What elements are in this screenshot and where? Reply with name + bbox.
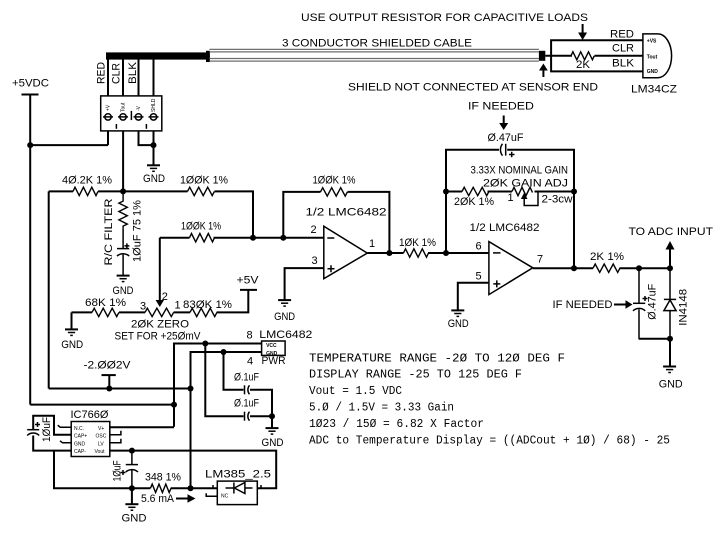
cable end cap at sensor end (539, 51, 545, 61)
diode IN4148 (664, 268, 676, 339)
node output adc (667, 265, 673, 271)
svg-text:2ØK GAIN ADJ: 2ØK GAIN ADJ (483, 178, 568, 190)
op-amp U1A plus (328, 265, 335, 272)
svg-text:5: 5 (476, 271, 482, 283)
terminal +5V (240, 289, 257, 291)
svg-text:CAP-: CAP- (74, 449, 86, 455)
svg-text:GND: GND (659, 379, 683, 391)
node first row joins inverting row (250, 235, 256, 241)
potentiometer 20K zero (145, 308, 174, 316)
wire -2.002V riser left (48, 191, 50, 388)
sensor LM34CZ body (643, 34, 672, 78)
resistor 348 1% (150, 484, 171, 492)
wire rail gnd drop (131, 488, 133, 504)
svg-text:Ø.1uF: Ø.1uF (234, 398, 259, 410)
label LM385 pin 1 tick (260, 485, 262, 488)
wire connector pin3 down to gnd (139, 131, 154, 145)
connector pin circles (103, 114, 159, 120)
svg-text:3.33X NOMINAL GAIN: 3.33X NOMINAL GAIN (471, 165, 569, 177)
svg-text:LV: LV (98, 441, 104, 447)
ground output (663, 367, 676, 373)
svg-text:7: 7 (537, 253, 543, 265)
capacitor 0.1uF first (245, 385, 250, 394)
wire 68K left to ground (71, 312, 73, 329)
IC7660 pin GND stub (60, 441, 71, 443)
wire connector pin1 up to cable (107, 56, 109, 96)
svg-text:2: 2 (311, 224, 317, 236)
wire IC7660 V+ (110, 426, 174, 428)
wire -2.002V rail (49, 388, 191, 390)
svg-text:Ø.47uF: Ø.47uF (488, 132, 524, 144)
LM385 box (217, 481, 257, 505)
svg-text:1ØuF 75 1%: 1ØuF 75 1% (132, 200, 144, 262)
row 68K / zero pot / 830K (72, 290, 249, 313)
svg-text:1ØuF: 1ØuF (112, 460, 124, 481)
plus mark 0.47uF output (643, 296, 648, 301)
svg-text:GND: GND (143, 173, 165, 185)
wire bottom rail with 348 (132, 487, 217, 489)
svg-text:3: 3 (140, 300, 146, 312)
svg-text:+VS: +VS (647, 38, 657, 44)
node op2 pin6 (443, 250, 449, 256)
svg-text:CAP+: CAP+ (74, 434, 87, 440)
node +5V feed (171, 402, 177, 408)
svg-text:RED: RED (96, 62, 108, 84)
plus mark 10uF reservoir (121, 470, 126, 475)
wire +5VDC rail (29, 95, 31, 405)
wire sensor GND (blk) (551, 56, 643, 72)
node connector gnd (151, 142, 157, 148)
svg-text:1: 1 (508, 192, 514, 204)
resistor 68K (92, 308, 119, 316)
capacitor 0.1uF second (245, 412, 250, 421)
svg-text:2ØK ZERO: 2ØK ZERO (131, 319, 189, 331)
wire op1 pin3 to ground (285, 268, 324, 300)
wire connector pin3 up to cable (138, 56, 140, 96)
svg-text:2K: 2K (576, 59, 591, 71)
cable thick jacket at connector end (106, 52, 206, 59)
svg-text:8: 8 (247, 330, 253, 342)
wire connector pin2 up to cable (122, 56, 124, 96)
svg-text:348 1%: 348 1% (145, 472, 181, 484)
wire inverting input row (160, 237, 324, 239)
op-amp U1B minus (493, 252, 501, 254)
svg-text:-2.ØØ2V: -2.ØØ2V (84, 360, 132, 372)
svg-text:BLK: BLK (612, 58, 635, 70)
svg-text:NC: NC (221, 494, 229, 500)
svg-text:1/2 LMC6482: 1/2 LMC6482 (306, 207, 387, 219)
svg-text:2K 1%: 2K 1% (590, 251, 624, 263)
svg-text:GND: GND (647, 69, 659, 75)
svg-text:IF NEEDED: IF NEEDED (468, 101, 534, 113)
capacitor 0.47uF output (633, 268, 645, 339)
node feedback joins inverting row (280, 235, 286, 241)
svg-text:LM34CZ: LM34CZ (631, 84, 677, 96)
arrow to output resistor (578, 24, 587, 40)
wire +5V feed row (30, 404, 174, 406)
svg-text:ADC to Temperature Display = (: ADC to Temperature Display = ((ADCout + … (309, 435, 670, 448)
svg-text:GND: GND (122, 513, 147, 525)
IC7660 pin LV stub (110, 439, 121, 443)
LM385 NC stub (206, 493, 217, 496)
wire sensor Vout segment (545, 55, 643, 57)
node bypass caps join (269, 413, 275, 419)
cable jacket end cap (206, 51, 210, 62)
svg-text:1ØØK 1%: 1ØØK 1% (180, 175, 228, 187)
arrow to shield at sensor end (539, 64, 548, 78)
svg-text:GND: GND (113, 285, 134, 297)
wire GND pin4 (191, 352, 262, 488)
svg-text:2ØK 1%: 2ØK 1% (454, 196, 494, 208)
wire bypass cap 2 (205, 344, 272, 417)
wire gain feedback top (446, 150, 574, 268)
ground connector shield (147, 165, 160, 171)
svg-text:1ØK 1%: 1ØK 1% (399, 237, 436, 249)
terminal +5VDC (22, 94, 39, 96)
wire zero pot wiper riser (159, 238, 161, 300)
wire cap- down to rail (54, 451, 132, 489)
plus mark 0.47uF feedback (509, 152, 515, 158)
wire input row (40.2K / 100K) (49, 191, 253, 237)
IC7660 box (71, 422, 110, 457)
arrow 5.6 mA (176, 494, 196, 502)
svg-text:CLR: CLR (612, 43, 634, 55)
wire +5V to connector pin 1 (30, 144, 108, 146)
node gain row right (571, 189, 577, 195)
node -2.002V rail end (188, 386, 194, 392)
svg-text:Vout: Vout (95, 449, 106, 455)
IC7660 pin OSC stub (110, 431, 121, 435)
resistor 830K (190, 308, 217, 316)
ground 68K (65, 329, 78, 335)
node gain row left (443, 189, 449, 195)
svg-text:LM385_2.5: LM385_2.5 (205, 469, 271, 481)
svg-text:+V: +V (106, 104, 112, 111)
op-amp U1B plus (493, 280, 500, 287)
capacitor 10uF pump (27, 430, 39, 436)
ground rail (125, 504, 138, 510)
svg-text:N.C.: N.C. (74, 426, 84, 432)
svg-text:PWR: PWR (262, 355, 286, 367)
svg-text:1ØuF: 1ØuF (41, 417, 53, 442)
svg-text:V+: V+ (98, 426, 104, 432)
svg-text:GND: GND (274, 311, 295, 323)
node Vout to 10uF2 (129, 448, 135, 454)
svg-text:1/2 LMC6482: 1/2 LMC6482 (470, 222, 540, 234)
IC7660 pin N.C. stub (58, 425, 71, 427)
svg-text:SHLD: SHLD (151, 98, 157, 112)
capacitor 10uF reservoir (126, 451, 138, 489)
svg-text:SET FOR +25ØmV: SET FOR +25ØmV (115, 331, 202, 343)
resistor 100K feedback (321, 188, 348, 196)
wire gain row (446, 191, 574, 193)
wire connector pin2 down to 40.2K node (122, 131, 124, 192)
resistor 100K first (188, 187, 215, 195)
connector divider tick (130, 111, 132, 120)
label LM385 pin 2 tick (212, 485, 214, 488)
svg-text:+5V: +5V (237, 275, 260, 287)
LM385 diode symbol (226, 483, 253, 494)
node rail LM385 (188, 485, 194, 491)
svg-text:1: 1 (175, 300, 181, 312)
wire feedback riser and top row (283, 192, 389, 253)
svg-text:CLR: CLR (111, 63, 123, 84)
node diode bottom (667, 336, 673, 342)
resistor 40.2K (73, 187, 98, 195)
wire connector pin4 down to gnd (153, 131, 155, 165)
wire op1 output to 10K to op2 pin6 (367, 252, 489, 254)
wire connector pin1 down (107, 131, 109, 145)
svg-text:Tout: Tout (121, 102, 127, 112)
svg-text:TO ADC INPUT: TO ADC INPUT (629, 226, 714, 238)
wire op2 pin5 to ground (458, 283, 489, 311)
svg-text:4Ø.2K 1%: 4Ø.2K 1% (62, 175, 112, 187)
svg-text:+5VDC: +5VDC (12, 78, 49, 90)
node pin2 wire meets input row (120, 188, 126, 194)
svg-text:GND: GND (74, 441, 86, 447)
node vcc bypass (202, 341, 208, 347)
power box LMC6482 (262, 341, 286, 355)
capacitor 10uF filter (117, 229, 129, 276)
resistor 2K (output resistor) (571, 52, 594, 60)
gain pot wiper arrow and hook (521, 193, 538, 206)
ground op1 pin3 (278, 300, 291, 306)
svg-text:5.6 mA: 5.6 mA (141, 493, 175, 505)
svg-text:5.Ø / 1.5V = 3.33 Gain: 5.Ø / 1.5V = 3.33 Gain (309, 402, 454, 415)
terminal -2.002V (102, 375, 116, 388)
svg-text:LMC6482: LMC6482 (259, 329, 312, 341)
svg-text:68K 1%: 68K 1% (85, 297, 126, 309)
svg-text:Ø.47uF: Ø.47uF (647, 284, 659, 320)
svg-text:83ØK 1%: 83ØK 1% (183, 299, 232, 311)
node rail gnd (129, 485, 135, 491)
op-amp U1B triangle (489, 242, 533, 295)
wire bypass to ground (271, 416, 273, 428)
svg-text:Tout: Tout (647, 54, 658, 60)
potentiometer 20K gain adj (512, 187, 533, 195)
svg-text:SHIELD NOT CONNECTED AT SENSOR: SHIELD NOT CONNECTED AT SENSOR END (348, 82, 598, 94)
connector tick a (115, 124, 117, 129)
svg-text:2-3cw: 2-3cw (542, 194, 573, 206)
svg-text:1Ø23 / 15Ø = 6.82 X Factor: 1Ø23 / 15Ø = 6.82 X Factor (309, 418, 484, 431)
wire sensor +VS (red) (551, 40, 643, 56)
wire bypass cap 1 (224, 352, 273, 416)
svg-text:IF NEEDED: IF NEEDED (553, 299, 613, 311)
svg-text:TEMPERATURE RANGE -2Ø TO 12Ø: TEMPERATURE RANGE -2Ø TO 12Ø DEG F (309, 353, 565, 366)
plus mark 10uF filter (124, 243, 129, 248)
node -2.002V tap (106, 386, 112, 392)
svg-text:GND: GND (61, 339, 83, 351)
svg-text:DISPLAY RANGE -25 TO 125 DEG F: DISPLAY RANGE -25 TO 125 DEG F (309, 369, 522, 382)
svg-text:IC766Ø: IC766Ø (71, 409, 109, 421)
wire IC7660 Vout row (110, 451, 276, 489)
connector tick b (145, 124, 147, 129)
svg-text:USE OUTPUT RESISTOR FOR CAPACI: USE OUTPUT RESISTOR FOR CAPACITIVE LOADS (301, 12, 588, 24)
svg-text:-V: -V (136, 105, 142, 111)
svg-text:BLK: BLK (127, 61, 139, 84)
op-amp U1A triangle (324, 226, 368, 279)
svg-text:GND: GND (262, 437, 284, 449)
node output cap (636, 265, 642, 271)
svg-text:4: 4 (247, 356, 253, 368)
svg-text:1: 1 (369, 238, 375, 250)
plus mark 10uF pump (35, 422, 40, 427)
node +5VDC to connector (27, 142, 33, 148)
connector block J1 (101, 96, 162, 131)
svg-text:OSC: OSC (96, 434, 107, 440)
arrow to ADC input (666, 241, 675, 268)
resistor 10K (404, 249, 429, 257)
svg-text:IN4148: IN4148 (678, 289, 690, 326)
svg-text:1ØØK 1%: 1ØØK 1% (313, 175, 356, 187)
ground op2 pin5 (451, 310, 464, 316)
ground bypass (266, 428, 279, 434)
svg-text:VCC: VCC (266, 343, 277, 349)
svg-text:R/C FILTER: R/C FILTER (103, 198, 115, 265)
resistor 20K 1% (462, 187, 489, 195)
wire output cap bottom (639, 339, 670, 367)
svg-text:RED: RED (610, 29, 634, 41)
wire pump cap loop (33, 416, 71, 451)
resistor 100K second (190, 234, 215, 242)
svg-text:6: 6 (476, 241, 482, 253)
svg-text:3 CONDUCTOR SHIELDED CABLE: 3 CONDUCTOR SHIELDED CABLE (282, 38, 472, 50)
node gnd bypass (221, 349, 227, 355)
arrow zero pot wiper (156, 300, 164, 307)
node output feedback (571, 265, 577, 271)
svg-text:Vout = 1.5 VDC: Vout = 1.5 VDC (309, 385, 402, 398)
op-amp U1A minus (327, 237, 334, 239)
svg-text:1ØØK 1%: 1ØØK 1% (181, 221, 221, 233)
wire connector pin4 up to cable (153, 56, 155, 96)
resistor 75 ohm (vertical) (119, 191, 127, 228)
ground R/C filter (117, 276, 130, 282)
resistor 2K 1% (593, 264, 620, 272)
wire VCC pin8 (174, 344, 262, 427)
svg-text:3: 3 (312, 255, 318, 267)
node feedback at output (386, 250, 392, 256)
shielded cable body (209, 49, 539, 61)
svg-text:Ø.1uF: Ø.1uF (234, 372, 259, 384)
svg-text:GND: GND (448, 318, 469, 330)
capacitor 0.47uF feedback (500, 144, 505, 156)
svg-text:2: 2 (162, 291, 168, 303)
arrow IF NEEDED to output cap (614, 300, 633, 309)
wire op2 output row (533, 267, 670, 269)
arrow IF NEEDED to 0.47uF (499, 116, 508, 131)
